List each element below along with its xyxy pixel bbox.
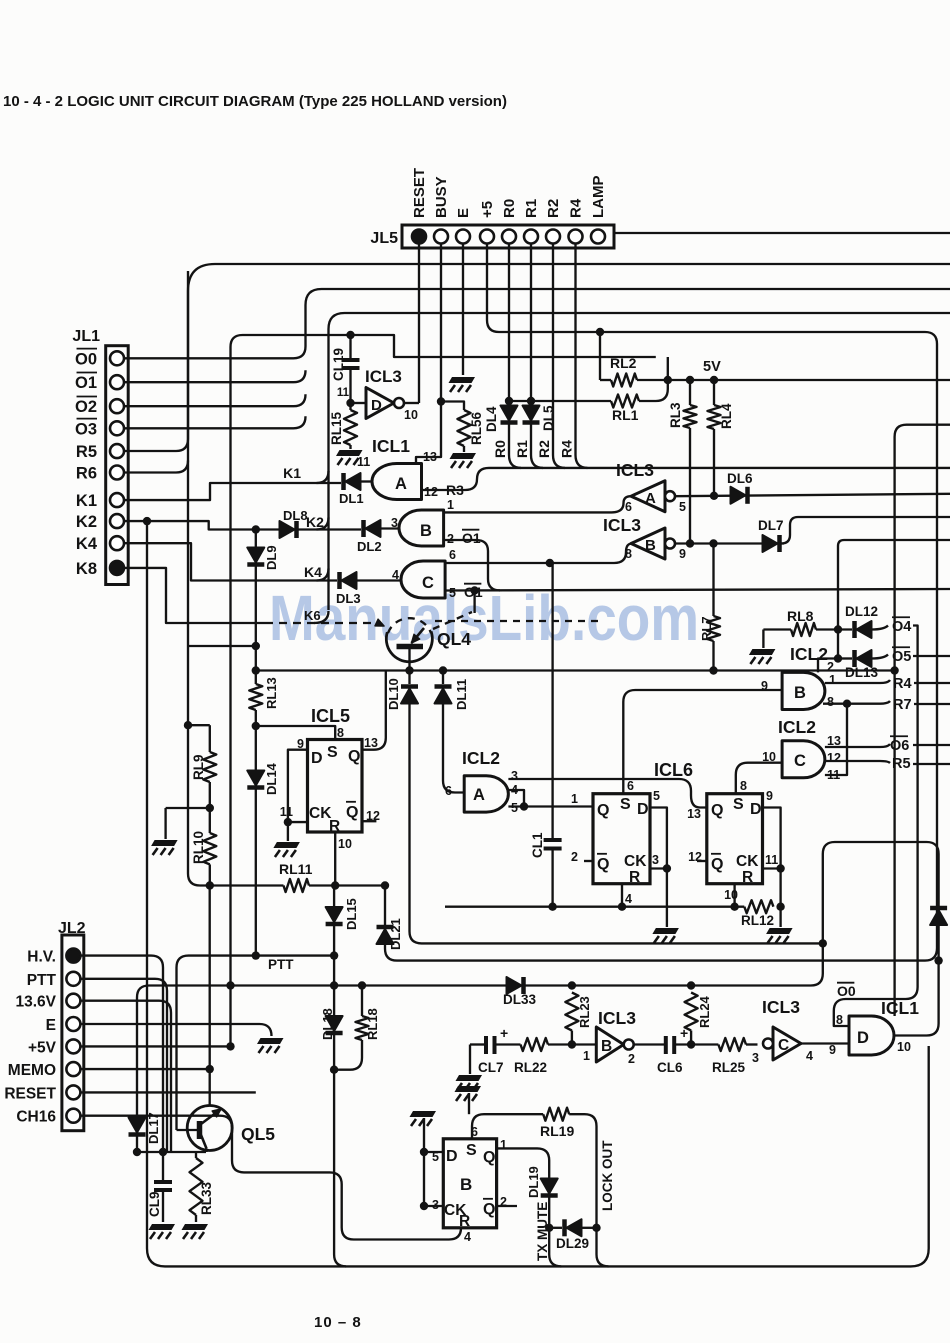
svg-text:O2: O2 [75, 398, 97, 416]
wire K4 tap to K-bus [317, 569, 329, 581]
JL5 pin R0 [502, 230, 516, 244]
gate ICL2-C [782, 741, 825, 778]
wire ICL6-2 R [733, 884, 735, 907]
wire RL2 riser [599, 332, 601, 380]
JL1 pin K4 [110, 536, 124, 550]
svg-text:O1: O1 [75, 374, 97, 392]
svg-text:D: D [857, 1029, 869, 1047]
node R0/RL1 [505, 397, 513, 405]
svg-text:B: B [645, 537, 656, 554]
dashed emitter link [433, 612, 472, 629]
svg-text:DL21: DL21 [388, 918, 403, 950]
stub wire y540 right edge [838, 540, 950, 659]
svg-text:R7: R7 [893, 697, 912, 713]
node RL2/riser [664, 376, 672, 384]
svg-text:8: 8 [827, 695, 834, 709]
svg-text:A: A [645, 490, 656, 507]
diode DL3 [357, 579, 401, 581]
diode DL18 [326, 1016, 343, 1031]
svg-text:LAMP: LAMP [590, 176, 607, 219]
svg-text:DL7: DL7 [758, 518, 784, 533]
svg-text:CK: CK [624, 853, 647, 870]
wire 5V branch via CL19 top [231, 335, 656, 357]
resistor RL25 [718, 1038, 746, 1051]
svg-text:CH16: CH16 [16, 1109, 56, 1126]
svg-text:RL22: RL22 [514, 1060, 547, 1075]
svg-text:DL12: DL12 [845, 604, 878, 619]
svg-text:13: 13 [423, 450, 437, 464]
resistor RL1 [611, 395, 639, 408]
node DL11 top [439, 666, 447, 674]
svg-text:D: D [750, 801, 762, 818]
svg-text:QL4: QL4 [437, 629, 471, 649]
svg-text:JL1: JL1 [72, 328, 100, 345]
svg-text:ICL1: ICL1 [372, 436, 410, 456]
svg-text:O0: O0 [837, 983, 856, 999]
JL2 pin 13.6V [66, 994, 80, 1008]
wire R1 drop [530, 244, 532, 407]
node ICL5 S [252, 722, 260, 730]
JL2 pin RESET [66, 1085, 80, 1099]
JL5 pin R4 [569, 230, 583, 244]
node CL19 top [346, 331, 354, 339]
resistor RL8 [763, 628, 791, 630]
svg-text:DL10: DL10 [386, 678, 401, 710]
svg-text:8: 8 [740, 779, 747, 793]
wire +5V line [80, 1045, 230, 1047]
node ICL6-1 R [618, 903, 626, 911]
wire LOCK OUT merge to border [597, 1228, 609, 1267]
wire DL18 net to border [334, 1070, 346, 1267]
vertical 5V branch down left side [229, 347, 231, 1046]
node PTT/DL15/DL18 [330, 951, 338, 959]
resistor RL12 [744, 900, 773, 913]
svg-text:4: 4 [464, 1230, 471, 1244]
svg-text:RL4: RL4 [719, 403, 734, 429]
resistor RL24 [685, 993, 698, 1031]
JL1 pin K1 [110, 493, 124, 507]
wire RESET drop to ICL3-D output [418, 244, 420, 404]
svg-text:RL11: RL11 [279, 861, 313, 877]
wire left vertical R5 net [188, 271, 284, 886]
diode DL9 [255, 530, 257, 549]
wire PTT line [177, 956, 337, 1130]
wire R0 to bus [509, 424, 521, 468]
svg-text:CL19: CL19 [331, 348, 346, 381]
wire RL10 bottom [209, 864, 211, 885]
wire DL4/DL5 top rail to RL1 [509, 400, 611, 402]
svg-text:11: 11 [357, 455, 370, 469]
node RL12 right [776, 903, 784, 911]
svg-text:CK: CK [736, 853, 759, 870]
svg-text:K4: K4 [304, 564, 322, 580]
inverter ICL3-C2 [773, 1027, 801, 1060]
svg-text:6: 6 [445, 784, 452, 798]
wire K2 riser to bottom border [147, 521, 929, 1266]
svg-text:R1: R1 [514, 440, 530, 458]
svg-text:10: 10 [762, 750, 776, 764]
svg-text:11: 11 [280, 805, 293, 819]
node RL23 top [568, 981, 576, 989]
svg-text:11: 11 [337, 387, 350, 399]
wire QL5 emitter [209, 886, 211, 1106]
svg-text:CL1: CL1 [530, 832, 545, 858]
gate ICL1-B [399, 510, 444, 546]
svg-text:3: 3 [511, 769, 518, 783]
JL2 pin H.V. [66, 949, 80, 963]
svg-text:R4: R4 [893, 676, 912, 692]
JL1 pin R5 [110, 444, 124, 458]
svg-text:9: 9 [761, 679, 768, 693]
wire ICL3-D out to RESET line [404, 402, 419, 404]
node QL4 collector [405, 666, 413, 674]
node pin8/pin11 [843, 700, 851, 708]
wire K2 line [124, 521, 280, 529]
svg-text:RL19: RL19 [540, 1123, 574, 1139]
wire DL18 drop [333, 956, 335, 1016]
dashed arc over QL4 [388, 618, 431, 633]
diode DL29 [549, 1227, 562, 1229]
svg-text:RL24: RL24 [697, 995, 712, 1028]
svg-text:10 – 8: 10 – 8 [314, 1314, 362, 1331]
wire O5bar to edge [913, 655, 950, 657]
node RL4 top [710, 376, 718, 384]
wire ICL1-D pin8 loop from O-net [834, 987, 918, 1026]
wire ICL5 D/CK loop [288, 750, 308, 822]
gate ICL2-A [464, 776, 508, 812]
transistor QL5 [187, 1106, 232, 1151]
wire RL11 right [309, 884, 385, 886]
reset line [445, 906, 744, 908]
svg-text:RL3: RL3 [668, 402, 683, 428]
svg-text:DL13: DL13 [845, 665, 879, 680]
capacitor CL9 [162, 1152, 164, 1182]
wire ICL6-1 S riser to ICL2-B pin9 [623, 690, 782, 794]
diode DL8 [280, 521, 295, 538]
wire DL21 to line y960 [385, 944, 397, 961]
svg-text:K4: K4 [76, 535, 98, 553]
resistor RL19 [543, 1108, 569, 1121]
resistor RL9 [209, 725, 211, 752]
svg-text:S: S [466, 1142, 477, 1159]
svg-text:DL15: DL15 [344, 898, 359, 930]
diode DL14 [247, 771, 264, 786]
wire ICL3-B2 out [634, 1043, 666, 1045]
connector JL5 [402, 225, 614, 248]
dashed K6 continuation [435, 620, 598, 622]
flip-flop ICL6-1 [593, 794, 650, 884]
diode DL5 [523, 406, 540, 421]
resistor RL10 [203, 833, 216, 864]
svg-text:ICL6: ICL6 [654, 760, 693, 780]
wire TX MUTE merge to border [549, 1228, 561, 1267]
wire MEMO line [80, 1068, 209, 1070]
svg-text:RL13: RL13 [264, 677, 279, 709]
svg-text:DL4: DL4 [484, 406, 499, 432]
svg-text:8: 8 [625, 547, 632, 561]
gate ICL1-D [849, 1016, 894, 1055]
wire line y960 to ICL1-D [937, 961, 939, 1024]
svg-text:C: C [778, 1037, 789, 1054]
svg-text:C: C [422, 574, 434, 592]
svg-text:RESET: RESET [4, 1085, 56, 1102]
node RL24 bottom [687, 1040, 695, 1048]
svg-text:10 - 4 - 2 LOGIC UNIT CIRCU: 10 - 4 - 2 LOGIC UNIT CIRCUIT DIAGRAM (T… [3, 93, 507, 110]
wire ICL6-2 S riser to ICL2-C pin10 [736, 763, 782, 794]
svg-text:RL33: RL33 [199, 1181, 214, 1215]
svg-text:RL8: RL8 [787, 608, 814, 624]
wire pin2 stub [818, 659, 838, 673]
svg-text:1: 1 [571, 792, 578, 806]
svg-text:R0: R0 [492, 440, 508, 458]
wire LAMP to right edge [614, 232, 950, 234]
svg-text:O3: O3 [75, 420, 97, 438]
svg-text:2: 2 [628, 1052, 635, 1066]
dashed K6 line [265, 622, 378, 624]
node diode right column on y960 [934, 956, 942, 964]
JL2 pin PTT [66, 972, 80, 986]
wire ICL2-B pin1 to R4 label [825, 680, 890, 683]
gate ICL2-B [782, 672, 825, 709]
wire O-bus riser to right edge [124, 289, 950, 358]
svg-text:+5: +5 [479, 201, 496, 218]
wire down to DL14 [255, 726, 257, 771]
wire ICL2-B pin8 / R7 [823, 701, 890, 704]
svg-text:K1: K1 [283, 465, 301, 481]
resistor RL56 [458, 410, 471, 446]
diode DL19 [541, 1179, 558, 1194]
JL1 pin K2 [110, 514, 124, 528]
svg-text:13: 13 [364, 736, 378, 750]
svg-text:3: 3 [752, 1051, 759, 1065]
svg-text:10: 10 [724, 888, 738, 902]
svg-text:CL6: CL6 [657, 1060, 683, 1075]
ground RL15 [349, 445, 351, 449]
svg-text:ICL1: ICL1 [881, 998, 919, 1018]
svg-text:RL1: RL1 [612, 407, 639, 423]
wire RL19 to LOCK OUT line [569, 1114, 596, 1228]
wire to ICL5 Q [362, 671, 386, 750]
wire R0 drop [508, 244, 510, 407]
ground E [449, 377, 476, 383]
svg-text:5: 5 [679, 500, 686, 514]
JL5 pin +5 [480, 230, 494, 244]
wire RL2 left lead [600, 379, 611, 381]
resistor RL15 [349, 403, 351, 410]
svg-text:DL17: DL17 [146, 1112, 161, 1144]
svg-text:K6: K6 [304, 608, 321, 623]
resistor RL22 [495, 1043, 521, 1045]
connector JL2 [62, 935, 84, 1131]
wire mid ground link [166, 807, 210, 809]
node R1/RL1 [527, 397, 535, 405]
wire QL4 collector line [256, 669, 895, 671]
svg-text:PTT: PTT [268, 957, 294, 972]
svg-text:10: 10 [897, 1040, 911, 1054]
node ICL3-D input [346, 399, 354, 407]
node ICL6-2 CK [776, 864, 784, 872]
wire RL1 right to 5V node [639, 357, 668, 401]
svg-text:A: A [395, 475, 407, 493]
diode DL2 [381, 527, 399, 529]
ground ICL6-1 [666, 869, 668, 928]
stub ICL6-2 Qbar [697, 860, 707, 862]
wire 13.6V down [80, 1001, 171, 1152]
svg-text:ICL3: ICL3 [603, 515, 641, 535]
stub ICL6-1 Qbar [584, 860, 593, 862]
node branch on left vertical [184, 721, 192, 729]
bus R0-R4 [489, 467, 950, 469]
node 646 [252, 642, 260, 650]
wire RL4 to ICL3-A out [713, 429, 715, 496]
svg-text:R2: R2 [536, 440, 552, 458]
svg-text:CL9: CL9 [147, 1191, 162, 1217]
svg-text:3: 3 [652, 853, 659, 867]
wire R7 to edge [914, 703, 950, 705]
svg-text:ICL3: ICL3 [598, 1008, 636, 1028]
svg-text:D: D [311, 750, 323, 767]
svg-text:R4: R4 [559, 440, 575, 458]
svg-text:BUSY: BUSY [433, 176, 450, 218]
node RL24 top [687, 981, 695, 989]
ground RL8 [762, 630, 764, 649]
wire DL12 to O4bar corner [872, 626, 889, 630]
svg-text:4: 4 [625, 892, 632, 906]
svg-text:R0: R0 [501, 199, 518, 218]
ground FF-B S line [455, 1086, 482, 1092]
wire RL18 bottom join [334, 1040, 362, 1070]
wire O2 tap [124, 394, 306, 406]
svg-text:ICL2: ICL2 [462, 748, 500, 768]
ground RL33 [182, 1224, 209, 1230]
resistor RL13 [249, 684, 262, 710]
wire ICL5 R to RL11 line [334, 832, 336, 886]
svg-text:10: 10 [404, 408, 418, 422]
svg-text:Q: Q [346, 804, 358, 821]
svg-text:DL29: DL29 [556, 1236, 589, 1251]
wire R4 drop to bus [576, 244, 588, 468]
svg-text:B: B [794, 684, 806, 702]
svg-text:R2: R2 [545, 199, 562, 218]
node collector-line left [252, 666, 260, 674]
svg-text:B: B [420, 522, 432, 540]
svg-text:D: D [371, 397, 382, 414]
wire DL11 to ICL2-A input [443, 704, 464, 793]
JL5 pin LAMP [591, 230, 605, 244]
wire DL8 to DL2 [298, 528, 361, 530]
svg-text:RL56: RL56 [469, 411, 484, 445]
svg-text:ICL2: ICL2 [790, 644, 828, 664]
flip-flop ICL6-2 [707, 794, 763, 884]
svg-text:6: 6 [625, 500, 632, 514]
wire right edge drop to ICL1-D region [895, 425, 950, 1016]
wire ICL2-A pin3 to ICL6-2 Q13 [508, 779, 706, 808]
node +5/RL2 riser [596, 328, 604, 336]
wire K4 line [124, 543, 337, 580]
capacitor CL6 [664, 1036, 668, 1054]
JL5 pin R2 [546, 230, 560, 244]
svg-text:9: 9 [679, 547, 686, 561]
wire R6 tap [124, 461, 188, 473]
wire ICL3-A out [675, 494, 950, 496]
svg-text:8: 8 [337, 726, 344, 740]
svg-text:13.6V: 13.6V [15, 994, 56, 1011]
diode DL21 [384, 886, 386, 926]
wire O4bar down to ICL1-D [913, 626, 918, 988]
svg-text:JL5: JL5 [370, 230, 398, 247]
node DL18/RL18 bottom [330, 1066, 338, 1074]
svg-text:ICL2: ICL2 [778, 717, 816, 737]
node ICL6-2 R [730, 903, 738, 911]
svg-text:6: 6 [449, 548, 456, 562]
wire ICL2-A pin5 to ICL6-1 Q1 [508, 805, 593, 807]
svg-text:DL2: DL2 [357, 539, 382, 554]
diode DL33 [507, 977, 522, 994]
svg-text:RL23: RL23 [577, 996, 592, 1028]
svg-text:12: 12 [424, 485, 438, 499]
wire feed line right part [526, 842, 939, 986]
wire K2 tap to K-bus [317, 518, 329, 530]
flip-flop B [443, 1139, 496, 1228]
svg-text:LOCK OUT: LOCK OUT [600, 1140, 615, 1211]
node K2 left riser [143, 517, 151, 525]
gate ICL1-A [372, 464, 421, 500]
flip-flop ICL5 [308, 740, 363, 833]
diode DL12 [857, 621, 872, 638]
svg-text:O6: O6 [890, 738, 909, 754]
svg-text:RL18: RL18 [365, 1008, 380, 1040]
wire K1 tap to K-bus [317, 471, 329, 483]
svg-text:RL9: RL9 [191, 754, 206, 780]
wire BUSY drop to ICL1-A pin13 [416, 244, 441, 464]
wire RL8 to DL12 [816, 628, 852, 630]
wire CH16 to flip-flop B reset [80, 1116, 461, 1240]
svg-text:ICL3: ICL3 [762, 997, 800, 1017]
resistor RL18 [361, 986, 363, 1017]
wire branch from left vertical [188, 645, 256, 647]
svg-text:CL7: CL7 [478, 1060, 504, 1075]
wire R1 to bus [531, 424, 543, 468]
svg-text:5V: 5V [703, 359, 721, 375]
transistor QL4 [386, 631, 432, 661]
svg-text:Q: Q [348, 748, 360, 765]
svg-text:K2: K2 [76, 513, 97, 531]
node MEMO [206, 1065, 214, 1073]
svg-text:K2: K2 [306, 514, 324, 530]
svg-text:RL12: RL12 [741, 913, 774, 928]
svg-text:RL10: RL10 [191, 831, 206, 864]
wire ICL2-A pin4 bracket [508, 790, 524, 807]
svg-text:9: 9 [829, 1043, 836, 1057]
JL2 pin E [66, 1017, 80, 1031]
svg-text:Q: Q [483, 1149, 495, 1166]
svg-text:+: + [500, 1025, 508, 1041]
svg-text:S: S [327, 744, 338, 761]
svg-text:S: S [620, 796, 631, 813]
node DL21 top [381, 881, 389, 889]
JL2 pin CH16 [66, 1109, 80, 1123]
svg-text:B: B [601, 1038, 612, 1055]
svg-text:R1: R1 [523, 199, 540, 218]
svg-text:5: 5 [653, 789, 660, 803]
svg-text:RL15: RL15 [329, 411, 344, 445]
svg-text:1: 1 [583, 1049, 590, 1063]
wire y540 vertical to ICL2-B pin2 [834, 654, 842, 662]
wire PTT pin down [80, 979, 167, 1152]
resistor RL33 [195, 1152, 197, 1158]
svg-text:PTT: PTT [27, 972, 57, 989]
wire K6 tap to K-bus [314, 611, 329, 623]
